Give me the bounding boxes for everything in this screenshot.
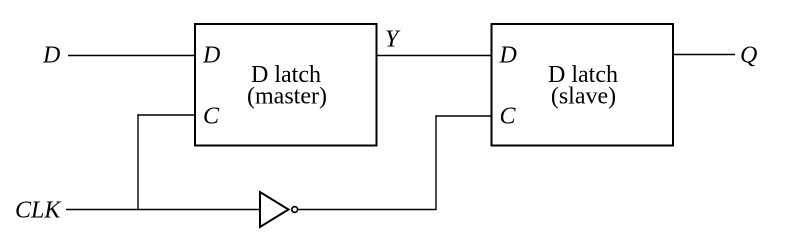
wire D input [68, 55, 195, 57]
svg-text:C: C [500, 104, 517, 130]
svg-text:Q: Q [740, 43, 757, 69]
inverter U3 triangle [260, 192, 289, 227]
D latch U1 (master) box [195, 24, 377, 146]
wire into slave C [435, 115, 491, 117]
svg-text:(slave): (slave) [551, 84, 616, 110]
wire Y (master Q to slave D) [377, 55, 492, 57]
svg-text:C: C [203, 104, 220, 130]
wire vertical to slave C [435, 115, 437, 210]
wire CLK horizontal [66, 209, 259, 211]
svg-text:CLK: CLK [15, 198, 62, 224]
wire Q output [673, 54, 735, 56]
wire into master C [137, 114, 195, 116]
svg-text:D: D [202, 42, 220, 68]
wire CLK branch vertical to master C [137, 114, 139, 210]
svg-text:(master): (master) [247, 84, 327, 110]
svg-text:D: D [42, 43, 60, 69]
svg-text:D: D [499, 42, 517, 68]
D latch U2 (slave) box [492, 24, 674, 146]
wire inverter output [299, 209, 437, 211]
inverter U3 bubble [292, 207, 298, 213]
